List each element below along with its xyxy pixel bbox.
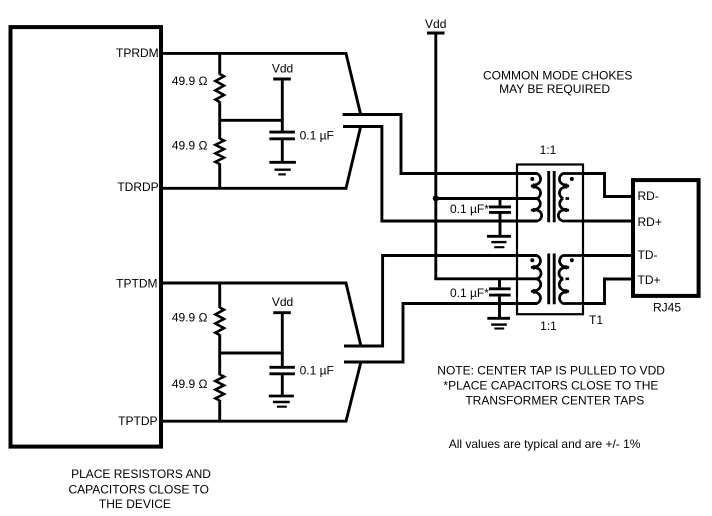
transformer2 primary winding (531, 256, 541, 304)
wire TDRDP horizontal + diagonal into choke break (161, 126, 361, 188)
svg-text:RD+: RD+ (638, 215, 662, 229)
capacitor C1 0.1 uF (269, 132, 295, 161)
wire TD+ (secondary2 bottom to RJ45) (583, 279, 633, 304)
transformer1 secondary phase dot (570, 177, 574, 181)
wire RD+ (secondary1 bottom to RJ45) (583, 220, 633, 223)
device box (PHY) (11, 27, 162, 447)
wire between R3 and R4 (218, 335, 221, 376)
svg-text:0.1 µF*: 0.1 µF* (450, 286, 489, 300)
transformer2 core (549, 254, 555, 305)
svg-text:All values are typical and are: All values are typical and are +/- 1% (449, 437, 641, 451)
svg-text:49.9 Ω: 49.9 Ω (172, 139, 208, 153)
wire stub C (y=346) to transformer2 primary top (344, 256, 537, 347)
svg-text:*PLACE CAPACITORS CLOSE TO THE: *PLACE CAPACITORS CLOSE TO THE (443, 379, 658, 393)
svg-text:49.9 Ω: 49.9 Ω (172, 74, 208, 88)
svg-text:TRANSFORMER CENTER TAPS: TRANSFORMER CENTER TAPS (465, 394, 644, 408)
transformer module T1 box (517, 165, 583, 315)
wire TPRDM horizontal + diagonal into choke break (161, 53, 361, 115)
svg-text:THE DEVICE: THE DEVICE (99, 497, 171, 511)
resistor R3 49.9 ohm (215, 308, 224, 335)
capacitor C4 0.1 uF* on center tap 2 (489, 278, 511, 318)
wire center tap 1 (to transformer1 primary CT) (436, 197, 537, 200)
svg-text:Vdd: Vdd (425, 17, 446, 31)
wire below R2 (218, 164, 221, 189)
wire below R4 (218, 400, 221, 421)
wire stub B (y=126.5) to transformer1 primary bottom (343, 127, 537, 222)
resistor R2 49.9 ohm (215, 139, 224, 165)
wire RD- (secondary1 top to RJ45) (583, 174, 633, 197)
wire TPTDP horizontal + diagonal into choke break (161, 363, 361, 422)
ground under C3 (487, 236, 511, 247)
svg-text:49.9 Ω: 49.9 Ω (172, 377, 208, 391)
wire between R1 and R2 (218, 102, 221, 140)
svg-text:TPTDP: TPTDP (118, 414, 157, 428)
svg-text:PLACE RESISTORS AND: PLACE RESISTORS AND (71, 467, 211, 481)
svg-text:CAPACITORS CLOSE TO: CAPACITORS CLOSE TO (68, 482, 208, 496)
svg-text:RJ45: RJ45 (653, 301, 681, 315)
Vdd symbol lower-left (272, 295, 293, 366)
svg-text:0.1 µF: 0.1 µF (300, 364, 334, 378)
wire Vdd rail vertical (434, 33, 437, 279)
RJ45 connector box (633, 180, 699, 296)
svg-text:TD+: TD+ (638, 273, 661, 287)
transformer2 secondary winding (559, 256, 583, 304)
svg-text:Vdd: Vdd (272, 61, 293, 75)
svg-text:RD-: RD- (638, 189, 659, 203)
wire resistor tap to C1 (upper mid wire) (220, 119, 283, 122)
capacitor C2 0.1 uF (269, 367, 295, 395)
transformer1 secondary winding (558, 174, 583, 222)
transformer1 core (549, 171, 555, 222)
wire TPTDM horizontal + diagonal into choke break (161, 283, 361, 346)
wire resistor tap to C2 (lower mid wire) (220, 352, 283, 355)
ground under C4 (487, 318, 510, 328)
wire vertical lower resistor chain (218, 283, 221, 308)
capacitor C3 0.1 uF* on center tap 1 (489, 197, 511, 235)
wire TD- (secondary2 top to RJ45) (583, 254, 633, 257)
transformer2 primary phase dot (530, 258, 534, 262)
svg-text:TPTDM: TPTDM (116, 277, 157, 291)
transformer1 primary winding (517, 174, 542, 222)
resistor R4 49.9 ohm (215, 375, 224, 401)
svg-text:T1: T1 (589, 313, 603, 327)
node junction dot on Vdd rail at center-tap 1 (433, 195, 439, 201)
transformer2 secondary phase dot (570, 258, 574, 262)
svg-text:49.9 Ω: 49.9 Ω (172, 311, 208, 325)
svg-text:TPRDM: TPRDM (116, 46, 159, 60)
wire center tap 2 (to transformer2 primary CT) (434, 277, 537, 280)
ground under C2 (269, 396, 294, 407)
wire vertical upper resistor chain (218, 53, 221, 74)
svg-text:NOTE: CENTER TAP IS PULLED TO: NOTE: CENTER TAP IS PULLED TO VDD (437, 364, 665, 378)
svg-text:TDRDP: TDRDP (117, 180, 158, 194)
ground under C1 (269, 162, 296, 174)
resistor R1 49.9 ohm (215, 74, 224, 102)
Vdd symbol upper-left (272, 61, 293, 131)
svg-text:Vdd: Vdd (272, 295, 293, 309)
Vdd symbol top center (425, 17, 446, 33)
svg-text:TD-: TD- (638, 248, 658, 262)
svg-text:COMMON MODE CHOKES: COMMON MODE CHOKES (483, 69, 632, 83)
svg-text:1:1: 1:1 (540, 319, 557, 333)
wire stub A (y=114.5) to transformer1 primary top (343, 115, 537, 174)
wire stub D (y=362) to transformer2 primary bottom (344, 304, 537, 363)
svg-text:MAY BE REQUIRED: MAY BE REQUIRED (499, 82, 610, 96)
transformer1 primary phase dot (530, 177, 534, 181)
svg-text:1:1: 1:1 (540, 143, 557, 157)
svg-text:0.1 µF*: 0.1 µF* (450, 202, 489, 216)
svg-text:0.1 µF: 0.1 µF (300, 129, 334, 143)
